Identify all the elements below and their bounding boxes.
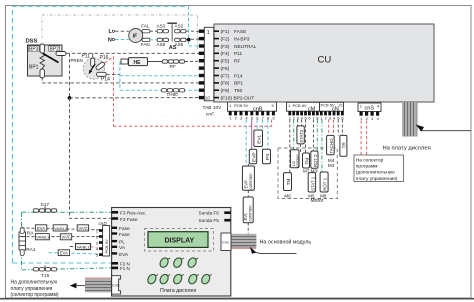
motor rotor ROT 1 [320,172,328,192]
ribbon cable right (to main module) [232,234,257,248]
svg-text:(F6): (F6) [221,66,230,72]
light gray dash-dot group border [42,15,198,50]
pressure switch lever [43,54,59,63]
svg-text:FASE: FASE [234,29,246,35]
wire STAT2 down [300,144,302,153]
svg-text:1: 1 [207,30,210,36]
CU pin strip [204,27,214,101]
svg-text:RF: RF [170,64,176,69]
svg-text:VA: VA [119,245,126,251]
cM teeth [288,111,318,115]
svg-text:RA: RA [27,231,34,237]
CU pins F1-F10 [199,30,205,100]
terminal FAL [141,23,150,33]
connector CnD board side [112,276,121,294]
cnB teeth [229,111,275,115]
svg-text:VA/BL2: VA/BL2 [54,226,68,231]
button row2 b2 [158,271,170,285]
wire cnS red 2 [366,121,368,156]
svg-text:TH90: TH90 [167,92,179,97]
wire cN pin1 teal [321,120,323,173]
label TAB 10V cnF [203,105,223,118]
svg-text:(F8): (F8) [221,81,230,87]
cnS teeth [360,112,380,116]
ribbon cable to display board (right of CU) [402,102,418,137]
wire BP2-OUT to CU F10 [70,97,205,99]
contact RF [162,60,184,69]
svg-text:BP3: BP3 [29,47,39,53]
svg-text:BP1: BP1 [29,64,39,70]
svg-text:Motor: Motor [311,198,324,204]
connector cnS [358,103,381,112]
display board [112,208,231,297]
svg-text:DSS: DSS [26,39,38,45]
svg-text:RF: RF [234,59,240,65]
svg-text:NEUTRAL: NEUTRAL [234,44,257,50]
svg-text:BP2-OUT: BP2-OUT [234,95,255,101]
connector cnB [228,102,277,112]
svg-text:P16: P16 [100,55,109,61]
svg-text:RA1: RA1 [26,247,36,253]
wire BP2 / P11 row to CU F4 [66,52,204,54]
valve VA/C [77,225,88,231]
valve VA/BL2 [53,225,68,231]
motor terminal TM lower [284,173,292,191]
svg-text:STAT 1: STAT 1 [310,176,315,191]
svg-text:T90: T90 [234,88,243,94]
terminal FAN [141,38,150,47]
svg-text:VA/BL3: VA/BL3 [36,235,50,240]
svg-text:Fase: Fase [119,226,130,232]
valve EVA 2 [58,250,69,256]
svg-text:плату управления: плату управления [11,286,53,292]
svg-text:(селектор программ): (селектор программ) [11,292,59,298]
button row1 b3 [186,255,198,269]
svg-text:PS: PS [265,154,271,160]
svg-text:AS: AS [169,45,177,51]
svg-text:(F9): (F9) [221,88,230,94]
wire cnB pin5 violet [251,120,253,150]
wire L input [115,30,129,32]
svg-text:ROT 2: ROT 2 [313,154,318,167]
wire cyan HE branch vertical [119,62,121,91]
motor stator STAT 1 [308,173,315,192]
button row2 b1 [146,271,158,285]
wire cM pin4 stub [301,120,303,126]
wire HE to RF [148,61,163,63]
svg-text:AS2: AS2 [175,23,184,28]
display pin EVA [112,252,129,258]
wire cyan TH90 row to CU F9 [120,89,204,91]
connector cnD [99,221,110,256]
wire cnB pin8 cyan [267,120,269,150]
wire cM pin2 teal [293,120,295,150]
wire cN pin4 red [333,120,335,136]
box EVP common [242,166,254,190]
connector Cn1 [221,233,231,251]
button row1 b1 [158,255,170,269]
svg-text:TAB 10V: TAB 10V [203,105,223,111]
svg-text:IN-BP3: IN-BP3 [234,36,250,42]
svg-text:common: common [296,154,300,167]
svg-text:VA/C: VA/C [78,226,87,231]
valve EVA [35,225,46,231]
svg-text:Sonda F6: Sonda F6 [199,211,220,216]
wire cM pin3 stub [297,120,299,126]
svg-text:EVP: EVP [251,152,257,162]
cN teeth [320,111,344,115]
switch T15 [33,265,56,279]
connector cM [287,102,320,112]
svg-text:cnS: cnS [365,106,375,112]
svg-text:TM: TM [304,158,309,165]
label M4 M3 [328,158,335,168]
display pin PL [112,240,126,246]
pressure switch spring zigzag [40,53,45,69]
interference filter IF [129,29,143,43]
svg-text:FAL: FAL [141,23,150,28]
svg-text:(F5): (F5) [221,59,230,65]
svg-text:DISPLAY: DISPLAY [165,238,195,245]
svg-text:На основной модуль: На основной модуль [260,238,312,245]
wire cM pin7 gray [312,120,314,152]
wire cyan border bottom to display F2 N [13,262,112,264]
wire P14 to CU F7 [106,73,120,75]
note box selector [354,155,404,182]
svg-text:PL: PL [119,240,125,246]
svg-text:TR: TR [342,142,348,149]
wire teal S17 row [22,211,112,213]
contact P16 [95,61,105,70]
wire P16 red diagonal [105,57,114,64]
button row1 b2 [172,255,184,269]
contact P14 [97,72,107,76]
svg-text:На плату дисплея: На плату дисплея [383,146,431,152]
svg-text:CnD: CnD [112,284,120,288]
contact AS2 [175,23,187,33]
svg-text:N: N [108,38,112,44]
svg-text:программ: программ [356,165,378,170]
svg-text:Плата дисплея: Плата дисплея [160,288,196,294]
svg-text:Sonda F5: Sonda F5 [199,218,220,223]
wire AS2 to CU F1 [186,30,204,32]
svg-text:AS3: AS3 [157,23,166,28]
wire RF to CU F5 [185,60,204,62]
wire BP1 bottom drop [42,77,204,83]
svg-text:PCB 6V: PCB 6V [293,103,308,108]
motor stator STAT2 [297,126,304,144]
wire teal vertical left [21,212,23,270]
wire cyan to CU F7 [120,75,204,77]
wire N input cyan [115,39,129,41]
resistor RA [19,228,36,256]
svg-text:EVA: EVA [60,251,68,256]
display pin Sonda F6 [199,211,231,216]
svg-text:TM: TM [286,178,291,185]
arrow to additional board [70,283,85,289]
svg-text:VA/BL1: VA/BL1 [77,244,91,249]
motor box 1/2 [290,150,299,168]
wire teal T15 row [22,268,112,270]
note text to additional control board [11,280,59,299]
wire cM pin5 gray [305,120,307,154]
terminal BP1 bottom [40,69,44,78]
svg-text:PCB 9V: PCB 9V [104,239,109,254]
DISPLAY screen [148,232,208,248]
heater plug [121,59,128,64]
svg-text:S17: S17 [41,202,50,208]
svg-text:BP1: BP1 [234,81,243,87]
svg-text:ROT 1: ROT 1 [323,177,328,190]
valve VA/BL1 [76,244,91,250]
node N [108,38,115,44]
CU pin ticks inside [214,31,219,97]
cyan dashed border top [13,6,187,263]
svg-text:(дополнительную: (дополнительную [356,170,395,176]
wire EVL common down to ribbon [247,223,249,234]
svg-text:cnF: cnF [206,112,215,118]
contact AS6 [157,38,169,47]
wire BP2 line down-left continuation [70,98,112,218]
wire AS5 to CU F2 [186,38,204,41]
svg-text:STAT2: STAT2 [299,129,304,143]
pressure sensor PS [263,149,271,164]
wire cnB pin7 cyan [262,120,264,150]
svg-text:Fase: Fase [119,232,130,238]
arrow to main module [250,247,297,254]
bottom dark border line [0,298,474,300]
wire cnB pin6 cyan [256,120,258,131]
node L [109,29,115,35]
valve EVL [254,130,263,147]
svg-text:AS6: AS6 [157,42,166,47]
switch S17 [33,202,56,212]
display pin Fase 1 [112,226,130,232]
terminal BP3 [40,44,44,53]
wire cN pin3 red [328,120,330,136]
svg-text:common: common [248,205,253,222]
ribbon cable left (to additional board) [85,278,112,293]
button row2 b4 [187,271,199,285]
contact AS3 [157,23,169,33]
tachometer TACHO [327,135,335,154]
svg-text:EVL: EVL [256,134,262,143]
svg-text:PCB 9V: PCB 9V [234,103,249,108]
wire cnB pin4 cyan [245,120,247,167]
svg-text:F3 Res-Asc.: F3 Res-Asc. [120,211,146,217]
motor terminal TM upper [303,153,310,168]
display pin F3 Res-Asc [112,211,147,217]
svg-text:(F7): (F7) [221,73,230,79]
svg-text:(F2): (F2) [221,36,230,42]
wire BP2 drop vertical [69,53,71,98]
wire cN pin5 gray [337,120,339,136]
wire FAN to AS6 cyan [150,39,157,41]
svg-text:HE: HE [134,60,142,66]
wire neutral cyan vertical [189,6,205,46]
wire cnS red 1 [360,121,362,156]
svg-text:M6: M6 [284,194,291,199]
motor dashed enclosure [278,148,337,199]
wire red stub cnB pin9 [271,120,273,127]
wire EVP to EVP common [247,164,249,166]
valve VA/C 2 [60,234,71,240]
svg-text:F3 Fase: F3 Fase [120,217,138,223]
svg-text:(F3): (F3) [221,44,230,50]
svg-text:P11: P11 [82,54,91,60]
valve VA/BL3 [35,234,50,240]
arrow to ribbon [416,125,472,132]
cnD pin numbers [96,228,99,257]
motor rotor ROT 2 [311,151,318,168]
svg-text:VA/C: VA/C [62,235,71,240]
heater HE [129,58,148,66]
box EVL common [243,197,253,223]
node junction BP2 line [68,96,72,100]
svg-text:T15: T15 [41,273,50,279]
svg-text:EVA: EVA [37,226,45,231]
node junction dot AS5/N [187,38,191,42]
svg-text:TACHO: TACHO [329,138,334,154]
wire valve row D cyan to cnD pin5 [49,253,101,254]
display pin Sonda F5 [199,218,231,223]
display pin F1 N [112,266,130,271]
wire P11 riser [92,53,94,58]
svg-text:M3: M3 [328,163,335,168]
transformer TR [340,135,348,156]
svg-text:На дополнительную: На дополнительную [11,280,58,286]
wire valve row B [22,236,100,238]
svg-text:P11: P11 [234,51,243,57]
svg-text:P14: P14 [234,73,243,79]
svg-text:На селектор: На селектор [356,157,384,163]
button row2 b5 [200,271,212,285]
cN pin numbers [320,116,344,121]
wire EVP common to EVL common [247,190,249,197]
block DSS [26,39,63,77]
cnS pin numbers [360,116,380,121]
svg-text:EVA: EVA [119,252,129,258]
display dashed frame [145,229,214,252]
contact TH90 [161,89,184,98]
wire VA/BL1 to cnD pin4 [91,247,100,249]
svg-text:плату управления): плату управления) [356,176,398,182]
wire cM pin8 teal [316,120,318,173]
control unit CU [214,24,434,102]
contact AS5 [175,38,187,47]
svg-text:Cn1: Cn1 [222,241,229,245]
connector cN [320,102,344,112]
svg-text:common: common [248,173,253,190]
display pin VA [112,245,126,251]
svg-text:(F10): (F10) [221,95,233,101]
cM pin numbers [289,116,320,121]
svg-text:10: 10 [205,95,211,100]
cnD pins [99,229,103,256]
valve EVP [249,149,257,164]
wire FAL to AS3 [150,30,157,32]
cnB pin numbers [229,116,275,121]
button row2 b3 [172,271,184,285]
wire valve row C stub [70,246,76,248]
svg-text:(F4): (F4) [221,51,230,57]
svg-text:F1 N: F1 N [120,266,130,271]
svg-text:(F1): (F1) [221,29,230,35]
terminal BP2 [56,52,66,56]
svg-text:P14: P14 [101,76,110,82]
selector wiper arrowhead [89,70,93,74]
selector wiper arrow [90,64,96,73]
display pin F2 N [112,261,130,266]
contact P11 [91,58,95,67]
wire P16 red vertical [113,57,115,127]
display pin Fase 2 [112,232,130,238]
selector PREN [71,54,111,83]
wire cM pin1 gray [289,120,291,173]
display pin F3 Fase [112,217,138,223]
wire cN pin6 gray [341,120,343,136]
CU pin labels [221,29,257,101]
wire valve row A [22,228,100,230]
wire red horizontal to cnB pin9 [114,125,272,127]
svg-text:CU: CU [318,55,332,66]
switch AS actuator link [167,23,177,41]
svg-text:21: 21 [339,103,344,108]
svg-text:FAN: FAN [141,42,150,47]
